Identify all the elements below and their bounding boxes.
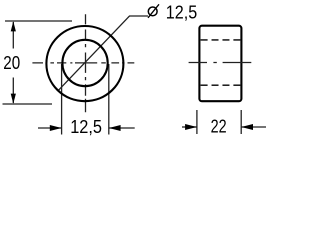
side view body rectangle — [199, 26, 241, 102]
dimension line tail left (12,5) — [38, 127, 62, 129]
arrowhead up (dimension 20) — [11, 21, 16, 31]
arrowhead right-pointing (12,5 left) — [50, 125, 62, 131]
extension line right (dimension 22) — [240, 110, 242, 134]
hidden line top (bore, side view) — [201, 39, 241, 41]
hidden line bottom (bore, side view) — [201, 84, 241, 86]
extension line right of dimension 12,5 — [108, 64, 110, 135]
svg-text:22: 22 — [211, 117, 227, 137]
svg-text:12,5: 12,5 — [166, 3, 197, 23]
arrowhead left-pointing (22 right) — [241, 124, 253, 130]
dimension line 20 (upper part) — [12, 22, 14, 49]
extension line left of dimension 12,5 — [61, 64, 63, 135]
dimension line tail right (12,5) — [109, 127, 135, 129]
arrowhead down (dimension 20) — [11, 94, 16, 104]
svg-text:12,5: 12,5 — [70, 117, 102, 137]
arrowhead right-pointing (22 left) — [185, 124, 197, 130]
inner circle (front view, bore) — [62, 40, 107, 86]
extension line top of dimension 20 — [5, 20, 72, 22]
outer circle (front view) — [46, 26, 123, 101]
dimension line 20 (lower part) — [12, 78, 14, 104]
extension line left (dimension 22) — [196, 110, 198, 134]
diameter leader line — [58, 16, 148, 91]
arrowhead left-pointing (12,5 right) — [109, 125, 121, 131]
vertical center line (front view) — [85, 14, 87, 112]
center line (side view) — [189, 62, 252, 64]
dimension line tail right (22) — [241, 126, 266, 128]
extension line bottom of dimension 20 — [3, 103, 53, 105]
dimension line tail left (22) — [182, 126, 197, 128]
diameter symbol of label Ø 12,5 — [148, 4, 159, 17]
horizontal center line (front view) — [32, 62, 134, 64]
svg-text:20: 20 — [3, 53, 20, 73]
